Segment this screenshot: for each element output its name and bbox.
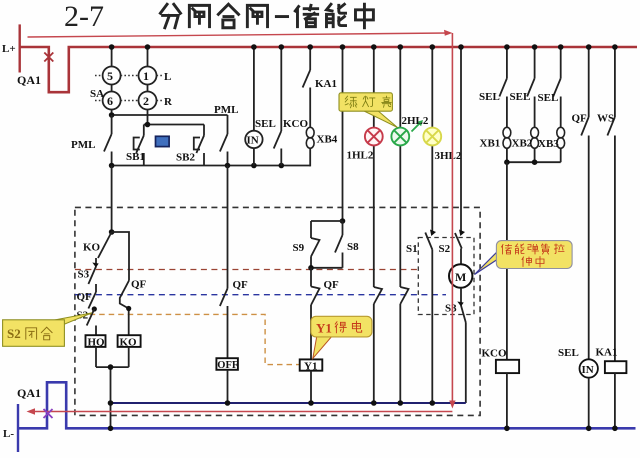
1HL2 label xyxy=(347,150,374,162)
S3 label (below M) xyxy=(445,303,457,315)
XB2 label xyxy=(512,138,533,150)
callout text 闭合 xyxy=(26,327,52,340)
svg-text:L-: L- xyxy=(3,428,14,440)
contact S8 xyxy=(311,221,343,268)
contact QF (top right) xyxy=(581,47,589,359)
contact KA1 xyxy=(303,47,311,127)
KCO label xyxy=(283,118,309,130)
lamp 1HL2 (red) xyxy=(365,128,383,146)
svg-text:XB1: XB1 xyxy=(480,138,501,150)
junction dot bus x534 xyxy=(532,44,538,50)
contact WS xyxy=(607,47,615,361)
KA1 label top xyxy=(315,78,337,90)
SA label xyxy=(90,88,104,100)
svg-text:KCO: KCO xyxy=(482,348,508,360)
svg-text:2-7: 2-7 xyxy=(64,0,104,33)
lamp branch 1HL2 xyxy=(373,47,375,403)
plug XB3 xyxy=(557,127,565,148)
contact S3 (below M) xyxy=(461,288,466,403)
green lit arrow xyxy=(412,120,424,132)
contact QF on Y1 branch xyxy=(311,268,320,360)
wire down to KCO coil xyxy=(506,162,508,360)
svg-text:QF: QF xyxy=(131,279,147,291)
callout text 得电 xyxy=(335,321,361,333)
junction dot bus x400 xyxy=(398,44,404,50)
plug XB1 xyxy=(503,127,511,148)
junction dot (147.5,124.5) xyxy=(145,122,151,128)
wire KCO to L- bus xyxy=(506,373,508,428)
svg-text:1HL2: 1HL2 xyxy=(347,150,374,162)
branch OFF coil xyxy=(220,166,228,359)
S1 label xyxy=(406,243,418,255)
junction dot bus x147 xyxy=(145,44,151,50)
title 分闸合闸-储能中 (drawn strokes) xyxy=(160,4,373,28)
junction dot bus x111 xyxy=(109,44,115,50)
svg-text:KO: KO xyxy=(120,337,138,349)
WS label xyxy=(597,113,614,125)
junction dot (432.3,403) xyxy=(430,400,436,406)
node row y165 xyxy=(112,165,311,167)
svg-text:R: R xyxy=(164,96,173,108)
contact SEL 3 (right) xyxy=(553,47,561,127)
KO label xyxy=(83,242,101,254)
callout Y1得电 xyxy=(311,316,372,358)
internal bottom bus (navy) xyxy=(111,402,466,404)
contact QF (KO chain) xyxy=(120,281,129,336)
title 2-7 xyxy=(64,0,104,33)
svg-text:QF: QF xyxy=(572,113,588,125)
S2 label (inner box) xyxy=(439,243,451,255)
S2 label (left chain) xyxy=(77,310,89,322)
plug XB4 xyxy=(306,127,314,148)
svg-text:IN: IN xyxy=(247,135,259,147)
QF label (top right) xyxy=(572,113,588,125)
L+ terminal bar xyxy=(2,24,20,72)
QF label (left chain) xyxy=(77,291,93,303)
wire IN to L- bus xyxy=(588,378,590,429)
svg-text:QF: QF xyxy=(324,279,340,291)
junction dot bus x506 xyxy=(504,44,510,50)
junction dot (534.6,162.2) xyxy=(532,159,538,165)
callout text 绿灯亮 xyxy=(345,96,391,108)
callout 储能弹簧拉伸中 xyxy=(475,241,573,275)
QA1 label top xyxy=(17,73,41,87)
contact S9 xyxy=(311,221,320,268)
contact QF (left chain) xyxy=(88,292,96,309)
junction dot bus x560 xyxy=(558,44,564,50)
lamp branch 2HL2 xyxy=(399,47,401,403)
svg-text:KCO: KCO xyxy=(283,118,309,130)
svg-text:1: 1 xyxy=(143,69,149,83)
svg-text:S3: S3 xyxy=(78,269,90,281)
contact SEL 2 (right) xyxy=(527,47,535,127)
SA dotted leads xyxy=(95,76,163,101)
blue indicator rectangle xyxy=(156,136,170,146)
junction dot (227.5,165.5) xyxy=(225,163,231,169)
svg-text:SEL: SEL xyxy=(510,91,531,103)
junction dot bus x373 xyxy=(371,44,377,50)
breaker QA1 top (red bus with withdrawable notch) xyxy=(20,47,637,92)
wire KA1 to L- bus xyxy=(614,373,616,428)
junction dot (373.8,403) xyxy=(371,400,377,406)
svg-text:XB4: XB4 xyxy=(317,134,338,146)
svg-text:2: 2 xyxy=(143,94,149,108)
svg-text:S9: S9 xyxy=(293,242,305,254)
callout 绿灯亮 xyxy=(339,93,398,128)
wire: SA branch 1/2 from bus xyxy=(147,47,149,125)
junction dot (111.6,165.5) xyxy=(109,163,115,169)
svg-text:KA1: KA1 xyxy=(596,347,618,359)
SA contact 5 xyxy=(103,67,121,85)
svg-text:6: 6 xyxy=(107,94,113,108)
S9 label xyxy=(293,242,305,254)
outer dashed relay box xyxy=(75,207,480,415)
junction dot bus x310 xyxy=(307,44,313,50)
XB join row xyxy=(507,148,561,162)
SEL label (top middle) xyxy=(255,118,276,130)
current return highlight (red, bottom) xyxy=(31,411,452,413)
junction dot (281.3,165.5) xyxy=(279,163,285,169)
svg-text:SA: SA xyxy=(90,88,104,100)
svg-text:2HL2: 2HL2 xyxy=(402,115,429,127)
svg-text:L+: L+ xyxy=(2,43,16,55)
SA contact 6 xyxy=(103,92,121,110)
KCO label (bottom) xyxy=(482,348,508,360)
callout S2闭合 xyxy=(3,313,92,346)
junction dot (128.7,308.5) xyxy=(126,306,131,311)
indicator SEL/IN (bottom right) xyxy=(580,359,598,377)
current path highlight vertical (red) xyxy=(451,33,453,402)
lamp 2HL2 (green, lit) xyxy=(391,128,409,146)
svg-text:5: 5 xyxy=(107,69,113,83)
contact KO (left chain) xyxy=(98,232,112,258)
contact S2 (left chain) xyxy=(87,309,96,335)
wire XB4 to node row xyxy=(309,148,311,166)
coil HQ xyxy=(86,335,106,348)
callout text 储能弹簧拉 / 伸中 xyxy=(502,244,565,267)
plug XB2 xyxy=(531,127,539,148)
svg-text:QF: QF xyxy=(233,279,249,291)
svg-text:WS: WS xyxy=(597,113,614,125)
coil KO xyxy=(118,335,141,348)
coil KA1 xyxy=(605,361,627,373)
svg-text:3HL2: 3HL2 xyxy=(435,150,462,162)
SEL label 1 xyxy=(479,91,500,103)
node L label xyxy=(164,71,171,83)
junction dot (111.6,232) xyxy=(109,229,115,235)
svg-text:PML: PML xyxy=(214,104,238,116)
branch HQ/KO group feed xyxy=(111,166,113,233)
junction dot bus x432 xyxy=(430,44,436,50)
svg-text:KA1: KA1 xyxy=(315,78,337,90)
X mark on QA1 top xyxy=(44,53,53,62)
S3 arrow tick (below M) xyxy=(457,302,463,307)
QA1 label bottom xyxy=(17,386,41,400)
junction dot bus x588 xyxy=(586,44,592,50)
junction dot L- bus x614 xyxy=(612,426,618,432)
SA contact 2 xyxy=(139,92,157,110)
svg-text:HQ: HQ xyxy=(88,337,106,349)
inner dashed box S1 S2 M xyxy=(418,238,474,315)
wire: SA branch 5/6 from bus xyxy=(111,47,113,115)
SB1 label xyxy=(126,151,145,163)
S3 arrow tick xyxy=(92,263,98,268)
junction dot L- bus x110 xyxy=(108,426,114,432)
lamp 3HL2 (yellow) xyxy=(423,128,441,146)
svg-text:SEL: SEL xyxy=(479,91,500,103)
S1 arrow tick xyxy=(430,230,436,237)
junction dot (111.6,115) xyxy=(109,112,115,118)
current path highlight (thin red, top) xyxy=(28,33,449,37)
svg-text:QA1: QA1 xyxy=(17,386,41,400)
svg-text:S1: S1 xyxy=(406,243,418,255)
junction dot (311,267.8) xyxy=(308,265,314,271)
svg-text:S2: S2 xyxy=(439,243,451,255)
wire to L- bus xyxy=(110,403,112,428)
svg-text:SB1: SB1 xyxy=(126,151,145,163)
motor M xyxy=(449,264,472,287)
junction dot bus x614 xyxy=(612,44,618,50)
contact PML left xyxy=(104,115,112,166)
svg-text:Y1: Y1 xyxy=(316,321,332,336)
dashed link line S3 (dark red) xyxy=(75,269,418,271)
XB4 label xyxy=(317,134,338,146)
S2 arrow tick xyxy=(459,230,465,237)
svg-text:SEL: SEL xyxy=(538,92,559,104)
wire OFF to bottom bus xyxy=(227,370,229,403)
contact S3 (left chain) xyxy=(88,258,96,292)
X mark on QA1 bottom (magenta) xyxy=(44,409,53,418)
3HL2 label xyxy=(435,150,462,162)
right chain wire to KO coil xyxy=(112,232,129,281)
wire S9/S8 top row xyxy=(311,220,343,222)
junction dot (400.3,403) xyxy=(398,400,404,406)
node R label xyxy=(164,96,173,108)
svg-text:SB2: SB2 xyxy=(176,152,195,164)
QF label (OFF branch) xyxy=(233,279,249,291)
S3 label xyxy=(78,269,90,281)
junction dot bus x461 xyxy=(458,44,464,50)
junction dot (110.5,367.1) xyxy=(108,364,114,370)
junction dot (311,403) xyxy=(308,400,314,406)
svg-text:S3: S3 xyxy=(445,303,457,315)
junction dot (227.5,403) xyxy=(225,400,231,406)
svg-text:OFF: OFF xyxy=(217,360,238,371)
SA contact 1 xyxy=(139,67,157,85)
svg-text:M: M xyxy=(455,270,466,284)
contact KCO xyxy=(274,47,282,166)
svg-text:QF: QF xyxy=(77,291,93,303)
QF label (KO chain) xyxy=(131,279,147,291)
dashed link line S2-Y1 (orange) xyxy=(90,314,300,364)
XB1 label xyxy=(480,138,501,150)
arrow down at bottom of red vertical xyxy=(449,401,455,409)
contact QF on 1HL2 branch xyxy=(374,287,382,304)
junction dot bus x253 xyxy=(251,44,257,50)
wire: row from SA-2 to SB2 xyxy=(144,124,204,126)
branch S2/M motor xyxy=(455,47,462,264)
junction dot bus x342 xyxy=(340,44,346,50)
contact SEL 1 (right) xyxy=(499,47,507,127)
wire: row from SA-6 to PML right xyxy=(112,114,228,116)
junction dot L- bus x588 xyxy=(586,426,592,432)
contact QF on 2HL2 branch xyxy=(400,287,408,304)
junction dot (94.3,309) xyxy=(92,306,97,311)
2HL2 label xyxy=(402,115,429,127)
junction dot L- bus x506 xyxy=(504,426,510,432)
branch S9/S8 from bus xyxy=(342,47,344,221)
junction dot (110.5,403) xyxy=(108,400,114,406)
PML left label xyxy=(71,139,95,151)
svg-text:S8: S8 xyxy=(347,241,359,253)
dashed link line QF (blue) xyxy=(75,294,446,296)
pushbutton SB1 xyxy=(134,125,144,166)
svg-text:XB3: XB3 xyxy=(538,138,559,150)
svg-text:PML: PML xyxy=(71,139,95,151)
svg-text:QA1: QA1 xyxy=(17,73,41,87)
QF label (Y1 branch) xyxy=(324,279,340,291)
svg-text:IN: IN xyxy=(582,364,594,376)
arrow left at end of return xyxy=(27,408,36,414)
arrow at end of top highlight xyxy=(444,30,453,36)
pushbutton SB2 xyxy=(194,125,204,166)
contact S1 xyxy=(425,233,432,250)
wire Y1 to bottom bus xyxy=(310,371,312,403)
junction dot (342.5,221) xyxy=(340,218,346,224)
indicator SEL/IN branch xyxy=(245,47,262,166)
XB3 label xyxy=(538,138,559,150)
PML right label xyxy=(214,104,238,116)
KA1 label (bottom right) xyxy=(596,347,618,359)
svg-text:L: L xyxy=(164,71,171,83)
svg-text:KO: KO xyxy=(83,242,101,254)
SB2 label xyxy=(176,152,195,164)
lamp branch 3HL2 xyxy=(431,47,433,403)
L- terminal bar xyxy=(3,404,18,452)
svg-text:SEL: SEL xyxy=(558,347,579,359)
svg-text:SEL: SEL xyxy=(255,118,276,130)
SEL label (bottom right) xyxy=(558,347,579,359)
svg-text:XB2: XB2 xyxy=(512,138,533,150)
svg-text:S2: S2 xyxy=(7,326,21,341)
HQ/KO bottom join xyxy=(96,347,129,403)
junction dot (506.9,162.2) xyxy=(504,159,510,165)
coil KCO xyxy=(496,360,519,373)
breaker QA1 bottom (blue bus with notch) xyxy=(18,382,636,428)
junction dot bus x281 xyxy=(279,44,285,50)
coil OFF xyxy=(216,358,238,371)
contact PML right xyxy=(220,115,228,166)
SEL label 2 xyxy=(510,91,531,103)
S8 label xyxy=(347,241,359,253)
IN text xyxy=(247,135,259,147)
junction dot (253.9,165.5) xyxy=(251,163,257,169)
SEL label 3 xyxy=(538,92,559,104)
coil Y1 xyxy=(300,359,323,372)
